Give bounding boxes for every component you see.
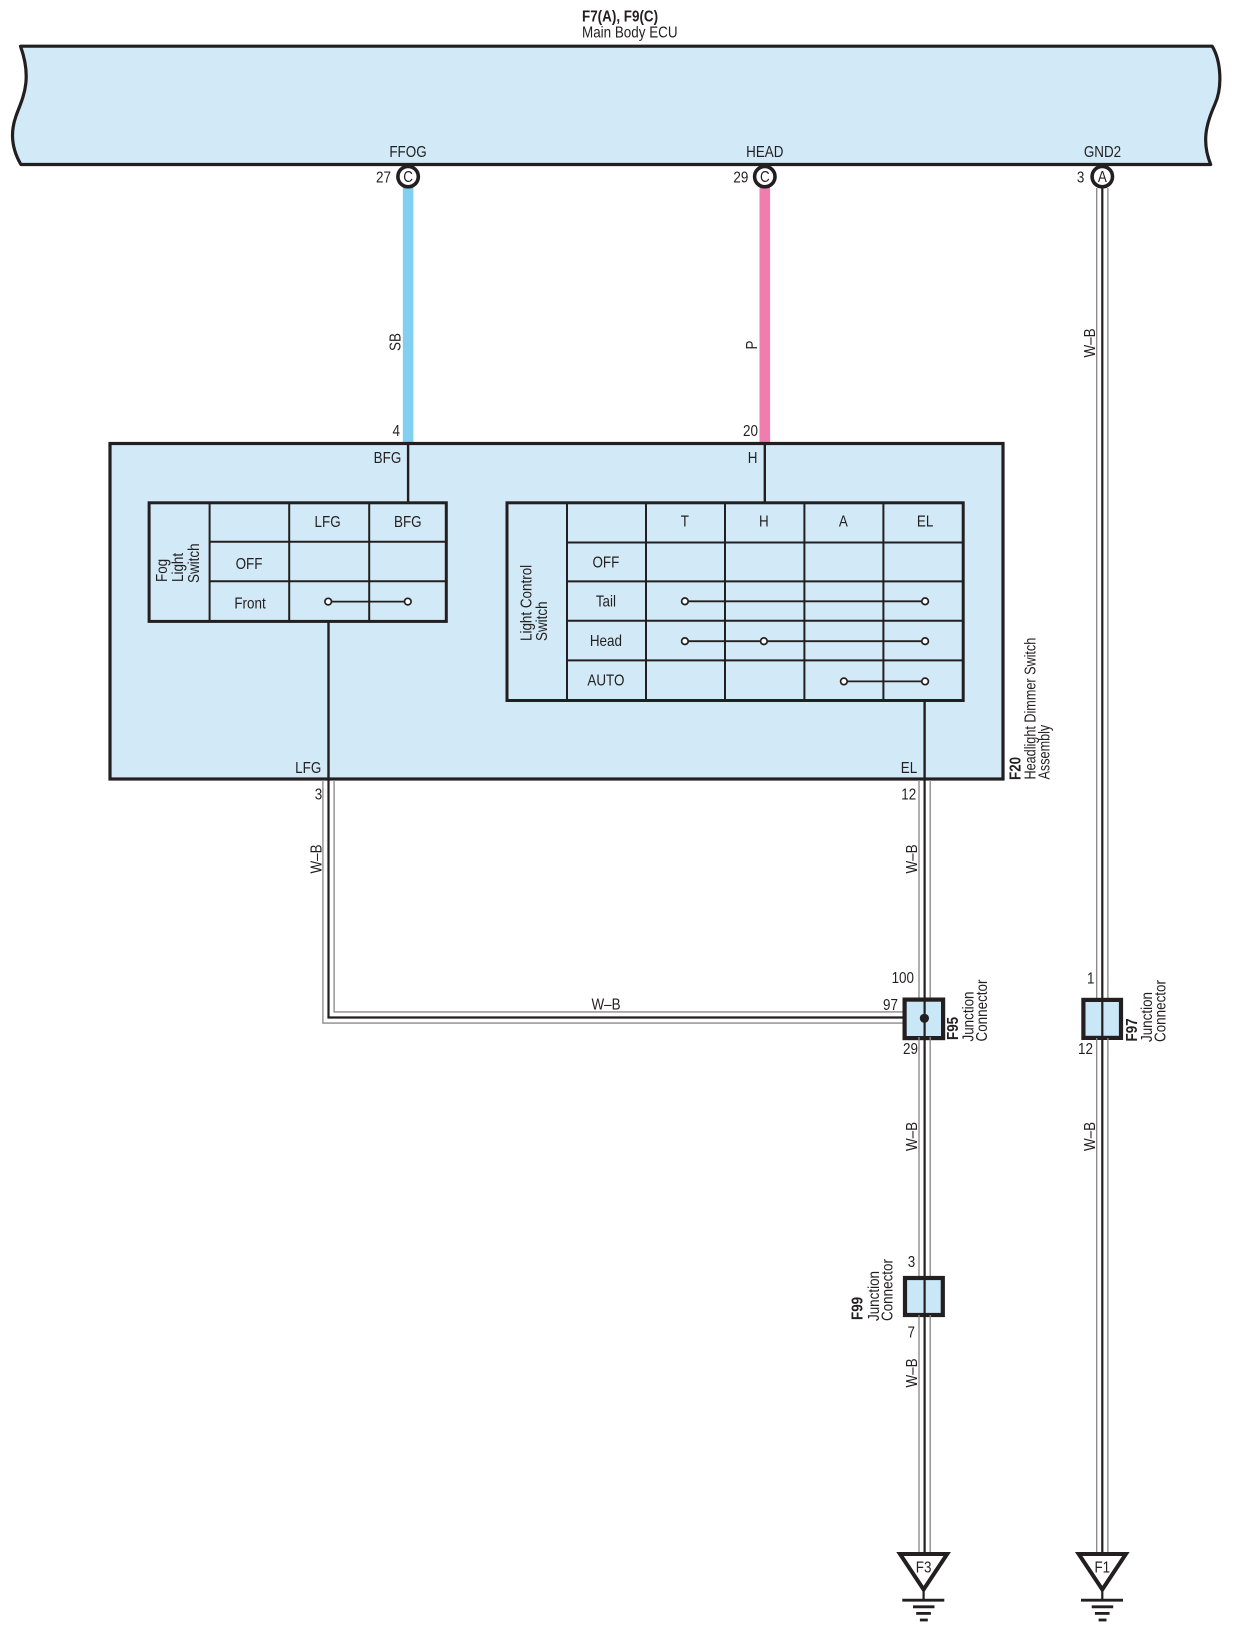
fog switch contact Front: LFG-BFG <box>325 598 411 605</box>
wire W-B (F95 pin 29 down to F99 pin 3) <box>919 1036 930 1278</box>
junction connector F97 <box>1083 1000 1121 1038</box>
node LFG label (bottom lead) <box>295 760 321 777</box>
light control switch table <box>507 503 963 701</box>
svg-text:1: 1 <box>1087 971 1094 988</box>
wire P (HEAD pin 29 to F20 pin 20) <box>760 186 771 444</box>
svg-text:W–B: W–B <box>591 997 620 1014</box>
pin 27 connector circle C <box>376 166 418 186</box>
svg-text:7: 7 <box>908 1324 915 1341</box>
svg-text:Fog: Fog <box>154 559 171 582</box>
light table header EL <box>917 514 933 531</box>
svg-text:F3: F3 <box>916 1560 932 1577</box>
ECU header label "F7(A), F9(C) / Main Body ECU" <box>582 9 678 42</box>
svg-text:Front: Front <box>234 596 265 613</box>
svg-text:Connector: Connector <box>974 979 991 1041</box>
svg-text:W–B: W–B <box>1082 328 1099 357</box>
svg-text:A: A <box>1098 169 1107 186</box>
pin 12 label (F20 bottom) <box>901 787 916 804</box>
svg-text:OFF: OFF <box>236 556 263 573</box>
light table row AUTO <box>587 673 624 690</box>
svg-text:BFG: BFG <box>394 514 422 531</box>
svg-text:W–B: W–B <box>309 844 326 873</box>
pin 29 label (F95 bottom) <box>903 1041 918 1058</box>
svg-text:4: 4 <box>393 423 400 440</box>
svg-text:100: 100 <box>892 970 914 987</box>
svg-text:Assembly: Assembly <box>1036 724 1054 779</box>
lead wire H pin20 to light table <box>764 444 766 504</box>
svg-text:27: 27 <box>376 169 391 186</box>
light control switch rotated label <box>519 565 552 641</box>
F97 junction connector rotated label <box>1124 980 1170 1042</box>
svg-text:Switch: Switch <box>186 543 203 583</box>
light switch contact Tail: T-EL <box>682 598 929 605</box>
wire label P <box>744 340 761 349</box>
svg-text:12: 12 <box>1078 1041 1093 1058</box>
svg-text:C: C <box>760 169 770 186</box>
Main Body ECU band (torn-edge block) <box>12 46 1219 164</box>
svg-text:3: 3 <box>315 787 322 804</box>
node GND2 label <box>1084 144 1121 161</box>
svg-text:W–B: W–B <box>1082 1122 1099 1151</box>
pin 3 label (F20 bottom) <box>315 787 322 804</box>
pin 4 label <box>393 423 400 440</box>
wire label W-B (GND2 lower) <box>1082 1122 1099 1151</box>
node HEAD label <box>746 144 783 161</box>
node EL label (bottom lead) <box>901 760 917 777</box>
svg-text:Connector: Connector <box>880 1259 897 1321</box>
svg-text:GND2: GND2 <box>1084 144 1121 161</box>
pin 29 connector circle C <box>733 166 775 186</box>
node FFOG label <box>389 144 426 161</box>
svg-text:Light: Light <box>170 553 187 582</box>
lead wire fog table LFG to pin 3 <box>327 620 329 778</box>
pin 1 label (F97 top) <box>1087 971 1094 988</box>
svg-text:12: 12 <box>901 787 916 804</box>
fog table header BFG <box>394 514 422 531</box>
light table header T <box>681 514 689 531</box>
svg-text:Tail: Tail <box>596 594 616 611</box>
light table header A <box>839 514 848 531</box>
wire W-B (F99 pin 7 down to ground F3) <box>919 1314 930 1552</box>
wire SB (FFOG pin 27 to F20 pin 4) <box>403 186 414 444</box>
wire W-B (F97 pin 12 down to ground F1) <box>1097 1037 1108 1552</box>
wire W-B (GND2 pin 3 to F97 junction, upper segment) <box>1097 188 1108 999</box>
light table row Head <box>590 633 622 650</box>
pin 3 label (F99 top) <box>908 1254 915 1271</box>
node BFG label (top lead) <box>374 450 402 467</box>
svg-text:29: 29 <box>733 169 748 186</box>
junction connector F99 <box>905 1278 943 1315</box>
svg-text:T: T <box>681 514 689 531</box>
pin 97 label (F95 left) <box>883 997 898 1014</box>
svg-text:F99: F99 <box>850 1297 867 1320</box>
svg-text:AUTO: AUTO <box>587 673 624 690</box>
node H label (top lead) <box>748 450 758 467</box>
svg-text:LFG: LFG <box>295 760 321 777</box>
wire label W-B (LFG vertical) <box>309 844 326 873</box>
svg-text:OFF: OFF <box>592 555 619 572</box>
fog table header LFG <box>315 514 341 531</box>
wire label W-B (EL middle) <box>904 1122 921 1151</box>
ground F3 <box>900 1554 947 1620</box>
svg-text:C: C <box>403 169 413 186</box>
ground F1 <box>1079 1554 1126 1620</box>
svg-text:97: 97 <box>883 997 898 1014</box>
svg-text:SB: SB <box>388 333 405 351</box>
light table row OFF <box>592 555 619 572</box>
wire label W-B (EL upper) <box>904 844 921 873</box>
svg-text:EL: EL <box>917 514 933 531</box>
fog table row Front <box>234 596 265 613</box>
pin 20 label <box>743 423 758 440</box>
F95 junction connector rotated label <box>945 979 991 1041</box>
svg-text:LFG: LFG <box>315 514 341 531</box>
svg-text:Head: Head <box>590 633 622 650</box>
F20 assembly rotated label <box>1007 638 1054 780</box>
wire W-B (F20 pin 12 EL down to F95 pin 100) <box>919 780 930 999</box>
svg-text:W–B: W–B <box>904 844 921 873</box>
svg-text:P: P <box>744 340 761 349</box>
fog light switch table <box>149 503 446 622</box>
svg-text:F7(A), F9(C): F7(A), F9(C) <box>582 9 658 26</box>
lead wire BFG pin4 to fog table <box>407 444 409 504</box>
svg-text:3: 3 <box>908 1254 915 1271</box>
svg-text:EL: EL <box>901 760 917 777</box>
svg-text:BFG: BFG <box>374 450 402 467</box>
pin 3 connector circle A <box>1077 166 1113 186</box>
light switch contact Head: T-H-EL <box>682 638 929 645</box>
F99 junction connector rotated label <box>850 1259 897 1321</box>
light table row Tail <box>596 594 616 611</box>
wire label SB <box>388 333 405 351</box>
svg-text:W–B: W–B <box>904 1358 921 1387</box>
pin 7 label (F99 bottom) <box>908 1324 915 1341</box>
wire label W-B (horizontal run) <box>591 997 620 1014</box>
svg-text:W–B: W–B <box>904 1122 921 1151</box>
pin 12 label (F97 bottom) <box>1078 1041 1093 1058</box>
svg-text:F1: F1 <box>1094 1560 1110 1577</box>
svg-text:20: 20 <box>743 423 758 440</box>
junction connector F95 <box>905 999 944 1039</box>
svg-text:FFOG: FFOG <box>389 144 426 161</box>
svg-text:Main Body ECU: Main Body ECU <box>582 25 678 42</box>
svg-text:29: 29 <box>903 1041 918 1058</box>
wire label W-B (EL lower) <box>904 1358 921 1387</box>
wire label W-B (GND2 upper) <box>1082 328 1099 357</box>
svg-text:H: H <box>759 514 769 531</box>
pin 100 label (F95 top) <box>892 970 914 987</box>
fog switch rotated label "Fog Light Switch" <box>154 543 203 583</box>
wire W-B (F20 pin 3 LFG down and right to F95 pin 97) <box>323 780 924 1023</box>
light switch contact AUTO: A-EL <box>841 678 929 685</box>
svg-text:A: A <box>839 514 848 531</box>
svg-text:HEAD: HEAD <box>746 144 783 161</box>
svg-text:Connector: Connector <box>1153 980 1170 1042</box>
svg-text:H: H <box>748 450 758 467</box>
svg-text:3: 3 <box>1077 170 1084 187</box>
lead wire light table EL to pin 12 <box>923 699 925 778</box>
svg-text:Switch: Switch <box>534 601 551 641</box>
F20 Headlight Dimmer Switch Assembly box <box>110 444 1003 780</box>
fog table row OFF <box>236 556 263 573</box>
light table header H <box>759 514 769 531</box>
